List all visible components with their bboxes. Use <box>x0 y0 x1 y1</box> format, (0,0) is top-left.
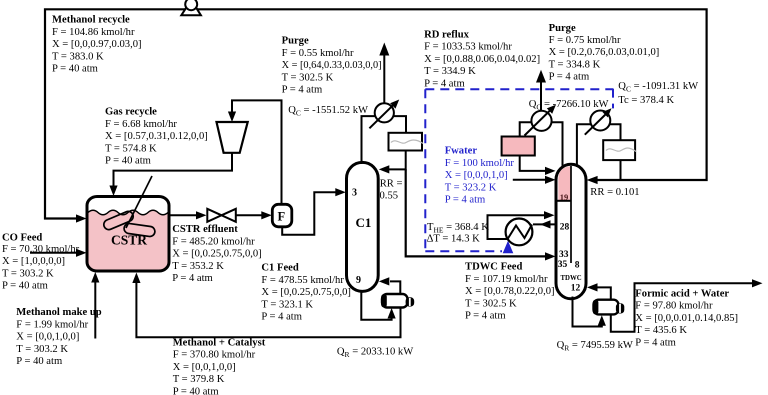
wire: valve to flash F <box>236 211 272 219</box>
wire: CSTR effluent to valve <box>169 211 207 219</box>
svg-text:F = 1.99 kmol/hr: F = 1.99 kmol/hr <box>16 319 88 330</box>
svg-text:P = 4 atm: P = 4 atm <box>445 195 486 206</box>
reboiler E2 (C1) <box>381 294 414 308</box>
svg-text:T = 323.1 K: T = 323.1 K <box>261 299 313 310</box>
text: Methanol make up block <box>16 307 101 367</box>
svg-text:X = [0.57,0.31,0.12,0,0]: X = [0.57,0.31,0.12,0,0] <box>105 131 208 142</box>
svg-text:TDWC Feed: TDWC Feed <box>465 262 522 273</box>
text: TDWC Feed block <box>465 262 555 322</box>
wire: condenser E4 to white drum <box>609 124 621 140</box>
svg-text:T = 383.0 K: T = 383.0 K <box>52 51 104 62</box>
wire: side draw stage 28 to internal HX <box>533 220 556 228</box>
svg-text:T = 302.5 K: T = 302.5 K <box>465 298 517 309</box>
label RR=0.55 <box>380 178 403 201</box>
svg-text:CO Feed: CO Feed <box>2 233 42 244</box>
wire: gas recycle from flash F to compressor <box>228 100 282 203</box>
wire: Fwater feed line <box>513 176 556 184</box>
wire: C1 feed from flash bottom <box>282 188 346 235</box>
pink reflux drum D2 <box>502 137 535 156</box>
svg-text:ΔT = 14.3 K: ΔT = 14.3 K <box>427 234 481 245</box>
svg-text:RD reflux: RD reflux <box>424 29 470 40</box>
svg-text:F = 6.68 kmol/hr: F = 6.68 kmol/hr <box>105 119 177 130</box>
svg-text:F = 478.55 kmol/hr: F = 478.55 kmol/hr <box>261 275 344 286</box>
wire: formic acid + water product <box>611 279 763 332</box>
svg-text:12: 12 <box>571 284 581 294</box>
svg-text:Tc = 378.4 K: Tc = 378.4 K <box>618 95 674 106</box>
condenser E1 (circle with arrow) <box>369 100 399 129</box>
CSTR reactor vessel <box>87 197 169 272</box>
svg-text:19: 19 <box>560 192 569 202</box>
svg-text:X = [0,0.88,0.06,0.04,0.02]: X = [0,0.88,0.06,0.04,0.02] <box>424 54 540 65</box>
svg-text:P = 4 atm: P = 4 atm <box>549 72 590 83</box>
svg-text:T = 334.9 K: T = 334.9 K <box>424 66 476 77</box>
text: Gas recycle block <box>105 107 208 167</box>
TDWC column <box>556 164 586 298</box>
stage line below 19 <box>558 200 572 202</box>
svg-text:F = 107.19 kmol/hr: F = 107.19 kmol/hr <box>465 274 548 285</box>
wire: methanol recycle outer loop (TDWC top to CSTR) <box>45 9 707 222</box>
svg-text:T = 435.6 K: T = 435.6 K <box>635 325 687 336</box>
reflux drum D1 <box>389 133 424 151</box>
svg-text:T = 303.2 K: T = 303.2 K <box>2 268 54 279</box>
wire: reflux to C1 and distillate down to TDWC feed <box>379 151 556 261</box>
svg-text:F = 97.80 kmol/hr: F = 97.80 kmol/hr <box>635 301 713 312</box>
text: Purge (C1) block <box>282 36 382 96</box>
svg-text:P = 40 atm: P = 40 atm <box>173 387 220 395</box>
svg-text:QC = -7266.10 kW: QC = -7266.10 kW <box>529 99 609 112</box>
wire: condenser to pink drum <box>520 122 532 136</box>
svg-text:F = 1033.53 kmol/hr: F = 1033.53 kmol/hr <box>424 42 512 53</box>
svg-text:X = [0,0.25,0.75,0,0]: X = [0,0.25,0.75,0,0] <box>261 287 351 298</box>
svg-text:F = 100 kmol/hr: F = 100 kmol/hr <box>445 158 515 169</box>
svg-text:Methanol make up: Methanol make up <box>16 307 101 318</box>
text: Methanol recycle block <box>52 15 142 75</box>
wire: C1 overhead vapor <box>362 116 375 164</box>
svg-text:P = 4 atm: P = 4 atm <box>261 312 302 323</box>
svg-text:0.55: 0.55 <box>380 191 399 202</box>
text: Purge (RD) block <box>549 23 660 83</box>
svg-text:F = 370.80 kmol/hr: F = 370.80 kmol/hr <box>173 350 256 361</box>
svg-text:X = [0,0,0.01,0.14,0.85]: X = [0,0,0.01,0.14,0.85] <box>635 313 738 324</box>
svg-text:33: 33 <box>559 250 569 260</box>
wire: TDWC bottoms to reboiler <box>573 297 606 327</box>
heat arrow (blue triangle) <box>503 241 514 253</box>
valve V1 <box>207 209 236 222</box>
svg-text:F = 0.75 kmol/hr: F = 0.75 kmol/hr <box>549 35 621 46</box>
svg-text:T = 574.8 K: T = 574.8 K <box>105 143 157 154</box>
svg-text:Purge: Purge <box>282 36 309 47</box>
svg-text:P = 4 atm: P = 4 atm <box>635 337 676 348</box>
wire: purge from C1 condenser <box>379 43 389 104</box>
svg-text:X = [0,0,0,1,0]: X = [0,0,0,1,0] <box>445 170 508 181</box>
svg-text:CSTR effluent: CSTR effluent <box>172 224 238 235</box>
svg-text:X = [0,0,0.97,0.03,0]: X = [0,0,0.97,0.03,0] <box>52 39 142 50</box>
svg-text:F = 104.86 kmol/hr: F = 104.86 kmol/hr <box>52 27 135 38</box>
svg-text:F = 0.55 kmol/hr: F = 0.55 kmol/hr <box>282 48 354 59</box>
reflux drum D3 <box>603 140 636 160</box>
svg-text:X = [0,0,1,0,0]: X = [0,0,1,0,0] <box>16 332 79 343</box>
condenser E3 (RD, circle with arrow) <box>525 105 556 136</box>
column C1 <box>347 162 379 291</box>
text: RD reflux block <box>424 29 540 89</box>
svg-text:F = 70.30 kmol/hr: F = 70.30 kmol/hr <box>2 244 80 255</box>
internal heat exchanger HX (circle with zigzag) <box>506 219 533 246</box>
text: C1 Feed block <box>261 263 351 323</box>
svg-text:X = [0,0,1,0,0]: X = [0,0,1,0,0] <box>173 362 236 373</box>
svg-text:P = 4 atm: P = 4 atm <box>172 273 213 284</box>
text: Methanol + Catalyst block <box>173 337 266 395</box>
pump P1 on recycle line <box>181 0 201 15</box>
pink RD section <box>558 166 571 201</box>
svg-text:TDWC: TDWC <box>561 275 582 282</box>
svg-text:Methanol + Catalyst: Methanol + Catalyst <box>173 337 266 348</box>
svg-text:28: 28 <box>560 222 570 232</box>
reboiler E5 (TDWC) <box>593 300 625 315</box>
svg-text:35: 35 <box>558 260 568 270</box>
wire: C1 bottoms (methanol + catalyst) recycle to CSTR <box>132 273 400 338</box>
condenser E4 (right, circle with arrow) <box>585 108 612 134</box>
svg-text:9: 9 <box>356 275 361 286</box>
svg-text:T = 302.5 K: T = 302.5 K <box>282 72 334 83</box>
svg-text:Methanol recycle: Methanol recycle <box>52 15 130 26</box>
wire: methanol make up line <box>91 272 99 339</box>
svg-text:P = 4 atm: P = 4 atm <box>282 85 323 96</box>
svg-text:QC = -1091.31 kW: QC = -1091.31 kW <box>618 81 698 94</box>
svg-text:P = 4 atm: P = 4 atm <box>465 311 506 322</box>
svg-text:X = [1,0,0,0,0]: X = [1,0,0,0,0] <box>2 256 65 267</box>
flash drum F <box>272 204 292 227</box>
wire: RD reflux return to TDWC <box>520 156 556 176</box>
svg-text:8: 8 <box>575 261 580 271</box>
svg-text:X = [0,0.25,0.75,0,0]: X = [0,0.25,0.75,0,0] <box>172 249 262 260</box>
wire: RD overhead vapor riser <box>551 122 563 167</box>
svg-text:T = 303.2 K: T = 303.2 K <box>16 344 68 355</box>
svg-text:P = 40 atm: P = 40 atm <box>2 281 49 292</box>
svg-text:T = 353.2 K: T = 353.2 K <box>172 261 224 272</box>
svg-text:T = 379.8 K: T = 379.8 K <box>173 374 225 385</box>
svg-text:3: 3 <box>352 188 357 199</box>
stirrer shaft <box>126 176 152 228</box>
svg-text:Fwater: Fwater <box>445 146 478 157</box>
text: Fwater block (blue) <box>445 146 515 206</box>
svg-text:P = 40 atm: P = 40 atm <box>105 156 152 167</box>
svg-text:Purge: Purge <box>549 23 576 34</box>
text: Formic acid + Water block <box>635 289 738 349</box>
svg-text:Formic acid + Water: Formic acid + Water <box>635 289 729 300</box>
wire: drum D3 bottom to recycle line <box>620 160 622 180</box>
text: Qc right + Tc <box>618 81 698 106</box>
svg-text:CSTR: CSTR <box>111 233 147 248</box>
wire: TDWC right vapor riser <box>577 124 592 167</box>
svg-text:X = [0,64,0.33,0.03,0,0]: X = [0,64,0.33,0.03,0,0] <box>282 60 382 71</box>
svg-text:C1: C1 <box>356 215 372 230</box>
svg-text:RR =: RR = <box>380 178 403 189</box>
compressor K1 <box>217 122 248 153</box>
wire: C1 bottoms to reboiler <box>361 290 395 320</box>
svg-text:T = 334.8 K: T = 334.8 K <box>549 59 601 70</box>
svg-text:T = 323.2 K: T = 323.2 K <box>445 182 497 193</box>
svg-text:X = [0.2,0.76,0.03,0.01,0]: X = [0.2,0.76,0.03,0.01,0] <box>549 47 660 58</box>
svg-text:P = 40 atm: P = 40 atm <box>52 64 99 75</box>
svg-text:P = 4 atm: P = 4 atm <box>424 79 465 90</box>
wire: condenser to reflux drum <box>394 116 406 133</box>
blue dashed box around RD section <box>425 89 613 252</box>
svg-text:C1 Feed: C1 Feed <box>261 263 298 274</box>
wire: compressor outlet to CSTR top <box>109 153 232 196</box>
svg-text:RR = 0.101: RR = 0.101 <box>590 187 639 198</box>
svg-text:QC = -1551.52 kW: QC = -1551.52 kW <box>288 105 368 118</box>
wire: HX return to TDWC <box>488 211 555 239</box>
divided wall <box>570 166 572 263</box>
svg-text:F = 485.20 kmol/hr: F = 485.20 kmol/hr <box>172 236 255 247</box>
svg-text:F: F <box>278 210 286 224</box>
wire: C1 reboiler vapor return <box>379 277 401 294</box>
wire: TDWC reboiler vapor return <box>587 283 611 299</box>
svg-text:P = 40 atm: P = 40 atm <box>16 356 63 367</box>
text: CO Feed block <box>2 233 80 292</box>
text: CSTR effluent block <box>172 224 262 284</box>
svg-text:Gas recycle: Gas recycle <box>105 107 157 118</box>
stirrer impeller (figure-eight) <box>102 210 155 237</box>
wire: CO feed line <box>30 249 87 257</box>
text: THE and dT <box>427 222 490 245</box>
wire: RD purge riser <box>536 70 546 112</box>
svg-text:X = [0,0.78,0.22,0,0]: X = [0,0.78,0.22,0,0] <box>465 286 555 297</box>
